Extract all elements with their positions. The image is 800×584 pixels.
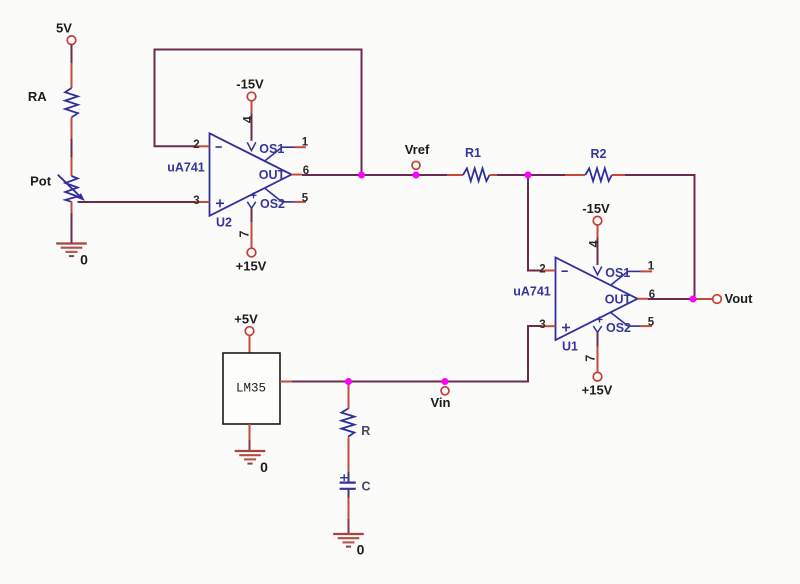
svg-text:Vref: Vref [405, 142, 430, 157]
svg-text:RA: RA [28, 89, 47, 104]
svg-text:0: 0 [357, 541, 365, 557]
svg-text:LM35: LM35 [236, 382, 266, 396]
svg-text:Vout: Vout [725, 291, 754, 306]
svg-text:Vin: Vin [431, 395, 451, 410]
svg-text:U1: U1 [562, 340, 578, 354]
svg-text:C: C [361, 479, 370, 493]
svg-text:Pot: Pot [30, 174, 52, 189]
svg-text:R2: R2 [591, 147, 607, 161]
svg-text:5V: 5V [56, 21, 72, 36]
svg-text:0: 0 [80, 252, 88, 268]
svg-text:U2: U2 [216, 215, 232, 229]
svg-text:0: 0 [260, 459, 268, 475]
svg-text:+5V: +5V [234, 311, 258, 326]
svg-text:R1: R1 [465, 146, 481, 160]
svg-text:R: R [361, 424, 370, 438]
